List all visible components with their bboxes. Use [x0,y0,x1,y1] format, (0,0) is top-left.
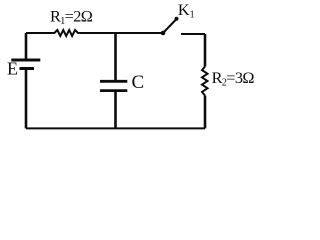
svg-text:R2=3Ω: R2=3Ω [212,68,255,89]
svg-text:C: C [132,72,145,93]
svg-text:R1=2Ω: R1=2Ω [50,7,93,28]
svg-text:E: E [7,59,18,79]
svg-text:K1: K1 [178,0,195,21]
